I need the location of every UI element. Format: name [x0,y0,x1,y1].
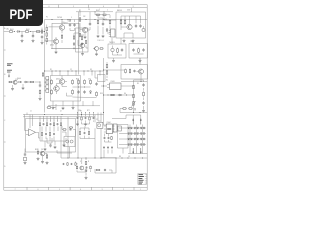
ground [62,107,65,110]
junction [43,113,46,116]
wire [119,133,146,135]
junction [102,94,105,97]
resistor R661 [81,116,82,120]
svg-text:3: 3 [47,120,48,122]
svg-text:5: 5 [54,120,55,122]
junction [85,157,88,160]
wire [142,125,144,149]
svg-text:C: C [4,120,6,122]
wire [112,118,126,120]
wire [46,138,48,143]
svg-text:VR: VR [134,110,136,112]
wire [61,84,63,86]
resistor R650 [41,132,42,136]
ground [63,144,66,147]
capacitor C623 [43,123,45,126]
wire [84,126,86,128]
transistor Q601 [59,25,64,30]
capacitor C616 [39,84,41,88]
wire [62,101,64,106]
wire [69,20,71,23]
capacitor C657 [84,132,86,135]
junction [132,111,135,114]
resistor R681 [67,162,68,165]
ground [72,106,75,109]
junction [77,157,80,160]
junction [69,18,72,21]
wire [122,148,124,154]
wire [79,23,81,27]
wire [73,96,97,99]
capacitor C633 [53,133,55,136]
wire [119,127,146,129]
wire [100,14,102,16]
capacitor C634 [85,169,87,173]
svg-text:1: 1 [40,120,41,122]
junction [17,81,20,84]
resistor R669 [79,131,80,135]
capacitor C601 [21,34,23,38]
wire [53,117,55,122]
wire [49,26,60,28]
ground [132,39,135,42]
capacitor C624 [50,123,52,126]
diode D611 [131,127,133,129]
resistor R615 [124,19,126,25]
resistor R614 [120,19,122,25]
junction [43,30,46,33]
svg-text:Q602: Q602 [50,45,54,47]
wire [44,20,46,83]
wire [35,81,40,83]
block X603 [118,126,121,131]
wire [82,48,84,52]
ground [46,161,49,164]
capacitor C633 [49,144,51,148]
diode D601 [16,31,20,33]
resistor R650 [85,40,86,44]
junction [13,30,16,33]
svg-text:3: 3 [71,17,72,19]
diode D613 [137,127,139,129]
wire [73,86,91,88]
wire [79,34,84,36]
wire [119,144,146,146]
wire [129,148,131,154]
wire [82,101,84,106]
svg-text:C603: C603 [68,21,72,23]
diode D621 [143,133,145,135]
junction [102,111,105,114]
wire [79,128,81,130]
diode D617 [131,133,133,135]
wire [60,127,62,159]
diode D630 [134,144,136,146]
wire [69,147,71,158]
capacitor C602 [32,34,34,38]
junction [73,47,76,50]
wire [135,148,137,154]
wire [94,115,96,123]
resistor R642 [39,122,40,126]
wire [103,124,106,126]
wire [76,170,78,172]
svg-text:6: 6 [57,120,58,122]
wire [76,11,113,13]
svg-text:T: T [75,162,76,164]
wire [80,28,82,30]
resistor R643 [46,122,47,126]
block X602 [64,136,75,146]
wire [57,127,59,132]
wire [32,32,34,35]
wire [45,127,47,132]
resistor R601 [8,31,14,33]
wire [4,31,8,33]
svg-text:R: R [88,161,89,163]
resistor R640 [37,150,39,154]
diode D632 [140,144,142,146]
wire [65,81,67,83]
svg-text:C15: C15 [15,79,18,81]
diode D628 [128,144,130,146]
wire [94,128,96,158]
wire [42,156,44,160]
resistor R608 [79,17,81,22]
resistor R638 [128,108,133,110]
wire [120,16,122,20]
wire [81,47,83,49]
ground [52,106,55,109]
wire [39,95,41,97]
resistor R663 [89,116,90,120]
capacitor C654 [93,117,95,120]
wire [40,140,66,142]
wire [78,12,80,75]
wire [53,136,55,141]
svg-text:R5: R5 [137,83,139,85]
wire [131,8,133,12]
wire [140,74,142,79]
transistor Q604 [127,24,132,29]
diode D624 [134,138,136,140]
junction [67,157,70,160]
junction [120,18,123,21]
ground [41,41,44,44]
arrow (yoke -) [140,148,142,154]
wire [97,15,99,19]
inductor L601 [37,31,40,33]
resistor R604 [46,26,48,32]
resistor R647 [47,107,52,109]
wire [52,88,55,90]
wire [53,127,55,132]
svg-text:Q601: Q601 [64,23,68,25]
wire [44,82,46,113]
wire [104,69,122,71]
junction [83,86,86,89]
wire [45,153,47,155]
capacitor C620 [142,83,144,87]
wire [97,26,99,35]
wire [97,113,99,122]
value label table [138,173,147,184]
svg-text:C9: C9 [128,156,130,158]
wire [96,51,98,53]
junction [103,18,106,21]
resistor R606 [46,37,48,43]
resistor R628 [72,89,74,95]
wire [59,71,61,76]
wire [120,108,123,110]
junction [80,113,83,116]
svg-text:3: 3 [101,189,102,191]
resistor R652 [76,166,77,170]
relay RY601 [98,75,106,82]
resistor R651 [129,69,131,74]
junction [94,10,97,13]
wire [104,94,134,96]
wire [51,71,53,76]
wire [76,163,78,165]
wire [57,152,72,154]
junction [28,81,31,84]
wire [21,32,23,35]
transistor Q607 [59,79,64,84]
wire [102,18,104,22]
wire [41,28,43,30]
transistor Q603 [82,27,87,32]
svg-text:2: 2 [107,10,108,12]
svg-text:D: D [4,166,6,168]
ground [39,97,42,100]
wire [85,45,87,48]
wire [60,117,62,122]
ground [55,51,58,54]
wire [39,82,41,84]
wire [44,141,46,147]
wire [56,91,58,94]
wire [86,19,147,21]
wire [101,85,107,87]
capacitor C642 [69,129,71,131]
wire [61,157,147,159]
wire [137,71,139,73]
junction [87,70,90,73]
wire [38,132,40,138]
op-amp U603 [26,129,39,136]
wire [31,31,45,33]
svg-text:R601: R601 [10,29,14,31]
wire [94,12,96,15]
capacitor C645 [108,137,110,140]
wire [95,158,116,173]
wire [62,129,63,131]
wire [100,113,102,123]
wire [134,53,144,55]
wire [50,117,52,122]
wire [135,16,137,23]
svg-text:R S C 0.1: R S C 0.1 [98,40,104,42]
wire [103,58,105,125]
wire [21,31,25,33]
svg-text:1: 1 [99,9,100,11]
wire [100,128,102,158]
wire [65,132,67,136]
resistor R637 [122,108,127,110]
wire [46,25,48,27]
diode D603 [106,28,108,32]
capacitor C613 [142,48,144,52]
capacitor C662 [71,163,73,165]
arrow (deflection -) [140,118,142,124]
block T602 [129,44,148,59]
resistor R602 [24,31,30,33]
wire [73,129,75,131]
resistor R624 [42,72,44,77]
potentiometer VR601 [132,101,136,107]
junction [125,94,128,97]
wire [73,47,75,49]
wire [139,58,141,65]
block T603 [121,65,148,80]
wire [77,79,79,158]
junction [71,70,74,73]
ground [112,59,115,62]
block X601 [113,124,117,132]
junction [51,18,54,21]
wire [41,40,43,42]
block F601 [23,158,26,161]
diode D631 [137,144,139,146]
ground [139,59,142,62]
wire [63,141,65,144]
capacitor C638 [103,146,105,148]
diode D607 [73,42,75,46]
svg-text:T602: T602 [130,41,134,43]
wire [93,48,95,50]
wire [111,38,113,44]
svg-text:R33: R33 [100,93,103,95]
capacitor C631 [45,133,47,136]
block sub-board [26,119,76,153]
svg-text:115V: 115V [127,9,130,11]
wire [52,101,54,106]
junction [67,18,70,21]
ground [102,35,105,38]
resistor R634 [133,85,135,88]
capacitor C625 [57,123,59,126]
resistor R635 [133,94,135,97]
wire [48,105,100,107]
svg-text:12K: 12K [83,16,86,18]
wire [89,113,91,117]
wire [92,101,94,106]
wire [103,150,105,158]
wire [67,117,69,124]
resistor R626 [51,89,53,95]
svg-text:C7: C7 [96,119,98,121]
wire [61,40,63,43]
capacitor C650 [77,117,79,120]
diode D627 [143,138,145,140]
wire [72,101,74,106]
wire [45,70,104,72]
wire [103,12,105,20]
junction [61,18,64,21]
resistor R616 [117,48,119,54]
wire [143,106,145,109]
integrated circuit IC604 [104,124,115,134]
junction [141,157,144,160]
wire [142,148,144,154]
svg-text:IC604: IC604 [107,122,111,124]
wire [109,26,111,34]
ground [41,160,44,163]
diode D618 [134,133,136,135]
junction [100,157,103,160]
svg-text:R602: R602 [26,29,30,31]
wire [139,58,141,59]
ground [32,39,35,42]
resistor R605 [46,32,48,38]
wire [101,157,116,159]
diode D629 [131,144,133,146]
wire [93,113,95,117]
capacitor C603 [69,23,71,27]
wire [104,140,106,142]
capacitor C607 [135,24,137,28]
block IC602 bias stage [51,76,81,102]
wire [51,48,82,50]
wire [77,120,79,122]
ground [24,161,27,164]
wire [106,62,108,63]
ground [123,39,126,42]
ground [76,123,79,126]
diode D614 [140,127,142,129]
resistor R644 [96,169,101,171]
resistor R667 [63,129,67,130]
capacitor C606 [102,22,104,26]
junction [121,157,124,160]
svg-text:6: 6 [48,6,49,8]
diode D623 [131,138,133,140]
capacitor C609 (electrolytic) [142,26,145,32]
wire [74,20,76,23]
wire [95,77,98,79]
wire [121,69,124,71]
diode D606 [118,94,122,96]
transistor Q610 [95,47,99,51]
ground [84,123,87,126]
wire [66,93,68,96]
resistor R611 [102,14,107,16]
junction [43,70,46,73]
wire [143,88,145,91]
transistor Q612 [80,166,84,170]
resistor R632 [96,91,98,97]
capacitor C641 [81,42,83,46]
capacitor C6A [41,35,43,39]
ground [84,36,87,39]
junction [127,157,130,160]
capacitor C612 [132,48,134,52]
junction [103,10,106,13]
transistor Q609 [40,151,45,156]
wire [79,137,81,139]
wire [89,138,95,140]
